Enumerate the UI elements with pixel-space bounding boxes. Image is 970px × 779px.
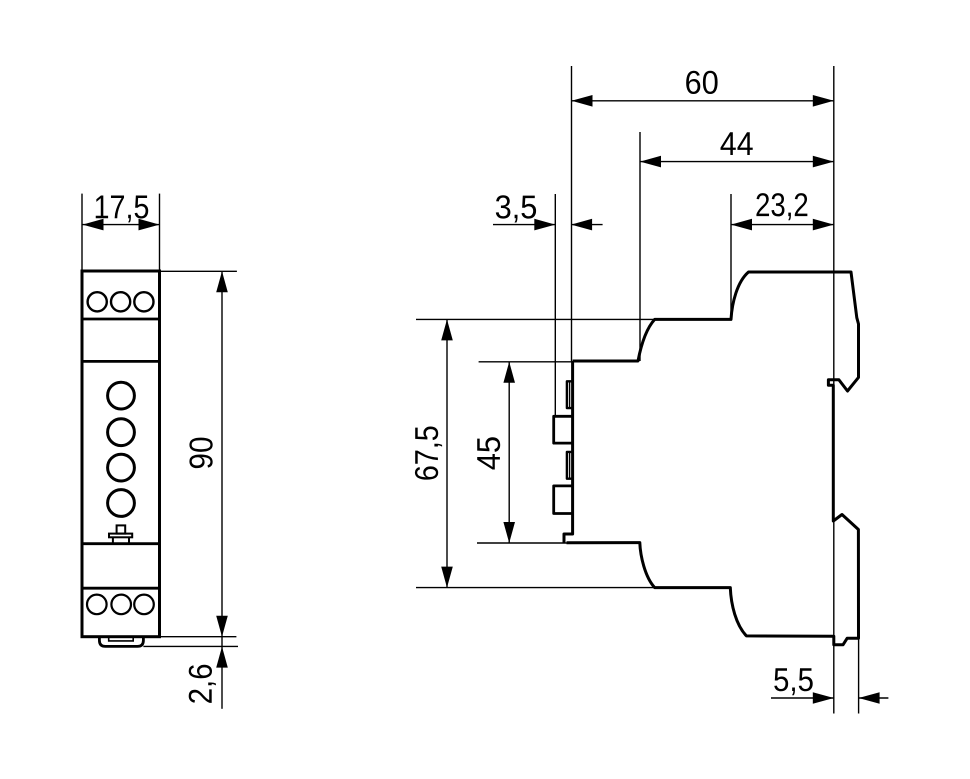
- section line below LED field: [82, 542, 160, 545]
- label 60: [686, 71, 717, 94]
- extension line foot bottom (2,6): [143, 645, 238, 647]
- dimension line 17,5: [83, 224, 160, 226]
- leader line 3,5 left: [493, 224, 555, 226]
- extension line 23,2 left: [730, 194, 732, 319]
- extension line 3,5 left: [554, 194, 556, 416]
- label 5,5: [774, 668, 812, 695]
- terminal clamp 3 inner edge: [569, 453, 571, 478]
- section line above LED field: [82, 360, 160, 363]
- dimension line 67,5: [446, 319, 448, 587]
- release latch right leg: [128, 537, 130, 543]
- dimension line 60: [572, 100, 834, 102]
- extension line left (17,5): [81, 194, 83, 271]
- label 3,5: [496, 195, 536, 222]
- arrowhead 44 left: [640, 156, 661, 168]
- terminal clamp 4 (deep): [554, 486, 573, 514]
- terminal clamp 1 inner edge: [569, 382, 571, 407]
- arrowhead 90 top: [216, 271, 228, 292]
- bottom terminal circle 1: [87, 595, 107, 615]
- arrowhead 60 right: [813, 95, 834, 107]
- release latch left leg: [112, 537, 114, 543]
- dimension line 2,6: [221, 637, 223, 709]
- arrowhead 17,5 left: [83, 219, 104, 231]
- dimension line 44: [640, 161, 834, 163]
- arrowhead 5,5 right: [859, 692, 880, 704]
- extension line top right (90): [160, 270, 237, 272]
- label 44: [721, 132, 753, 155]
- LED circle 3: [108, 454, 135, 481]
- front face of side view: [564, 361, 573, 543]
- bottom terminal circle 3: [134, 595, 154, 615]
- section line below top terminals: [82, 318, 160, 321]
- label 17,5: [96, 196, 148, 223]
- front view body outline: [82, 271, 160, 637]
- label 90: [189, 438, 212, 469]
- label 45: [477, 437, 500, 469]
- side view body outline: [567, 272, 859, 645]
- arrowhead 23,2 right: [813, 219, 834, 231]
- reference line 45 top: [479, 361, 573, 363]
- arrowhead 45 top: [503, 362, 515, 383]
- arrowhead 17,5 right: [139, 219, 160, 231]
- extension line right (17,5): [159, 194, 161, 271]
- terminal clamp 1 (shallow): [567, 381, 573, 408]
- extension line 5,5 outer: [858, 638, 860, 713]
- arrowhead 44 right: [813, 156, 834, 168]
- dimension line 90: [221, 271, 223, 636]
- terminal clamp 2 (deep): [554, 416, 573, 443]
- reference line 67,5 top: [416, 318, 655, 320]
- arrowhead 67,5 top: [441, 319, 453, 340]
- LED circle 4: [108, 490, 135, 517]
- mounting foot inner slide: [109, 637, 134, 641]
- label 2,6: [189, 665, 216, 703]
- arrowhead 3,5 right: [571, 219, 592, 231]
- mounting foot outline: [99, 637, 143, 647]
- dimension line 23,2: [731, 224, 834, 226]
- top terminal circle 1: [88, 292, 107, 311]
- arrowhead 60 left: [572, 95, 593, 107]
- dimension line 45: [508, 362, 510, 543]
- release latch base: [109, 534, 132, 538]
- top terminal circle 2: [111, 292, 130, 311]
- arrowhead 2,6: [216, 647, 228, 668]
- LED circle 2: [108, 419, 135, 446]
- section line above bottom terminals: [82, 587, 160, 590]
- reference line 67,5 bottom: [416, 587, 655, 589]
- arrowhead 3,5 left: [534, 219, 555, 231]
- arrowhead 90 bottom: [216, 616, 228, 637]
- arrowhead 23,2 left: [731, 219, 752, 231]
- arrowhead 45 bottom: [503, 522, 515, 543]
- extension line bottom right (90): [161, 636, 236, 638]
- extension line 60/23,2/5,5 right (rail plane): [833, 66, 835, 714]
- extension line 60 left: [571, 66, 573, 361]
- arrowhead 5,5 left: [813, 692, 834, 704]
- leader line 5,5 right: [859, 697, 889, 699]
- reference line 45 bottom: [477, 542, 567, 544]
- leader line 5,5 left: [771, 697, 834, 699]
- label 23,2: [756, 193, 807, 220]
- LED circle 1: [108, 382, 135, 409]
- arrowhead 67,5 bottom: [441, 567, 453, 588]
- label 67,5: [415, 426, 442, 479]
- bottom terminal circle 2: [111, 595, 131, 615]
- leader line 3,5 right: [571, 224, 603, 226]
- terminal clamp 3 (shallow): [567, 452, 573, 479]
- top terminal circle 3: [134, 292, 153, 311]
- release latch knob: [117, 525, 126, 533]
- extension line 44 left: [639, 132, 641, 361]
